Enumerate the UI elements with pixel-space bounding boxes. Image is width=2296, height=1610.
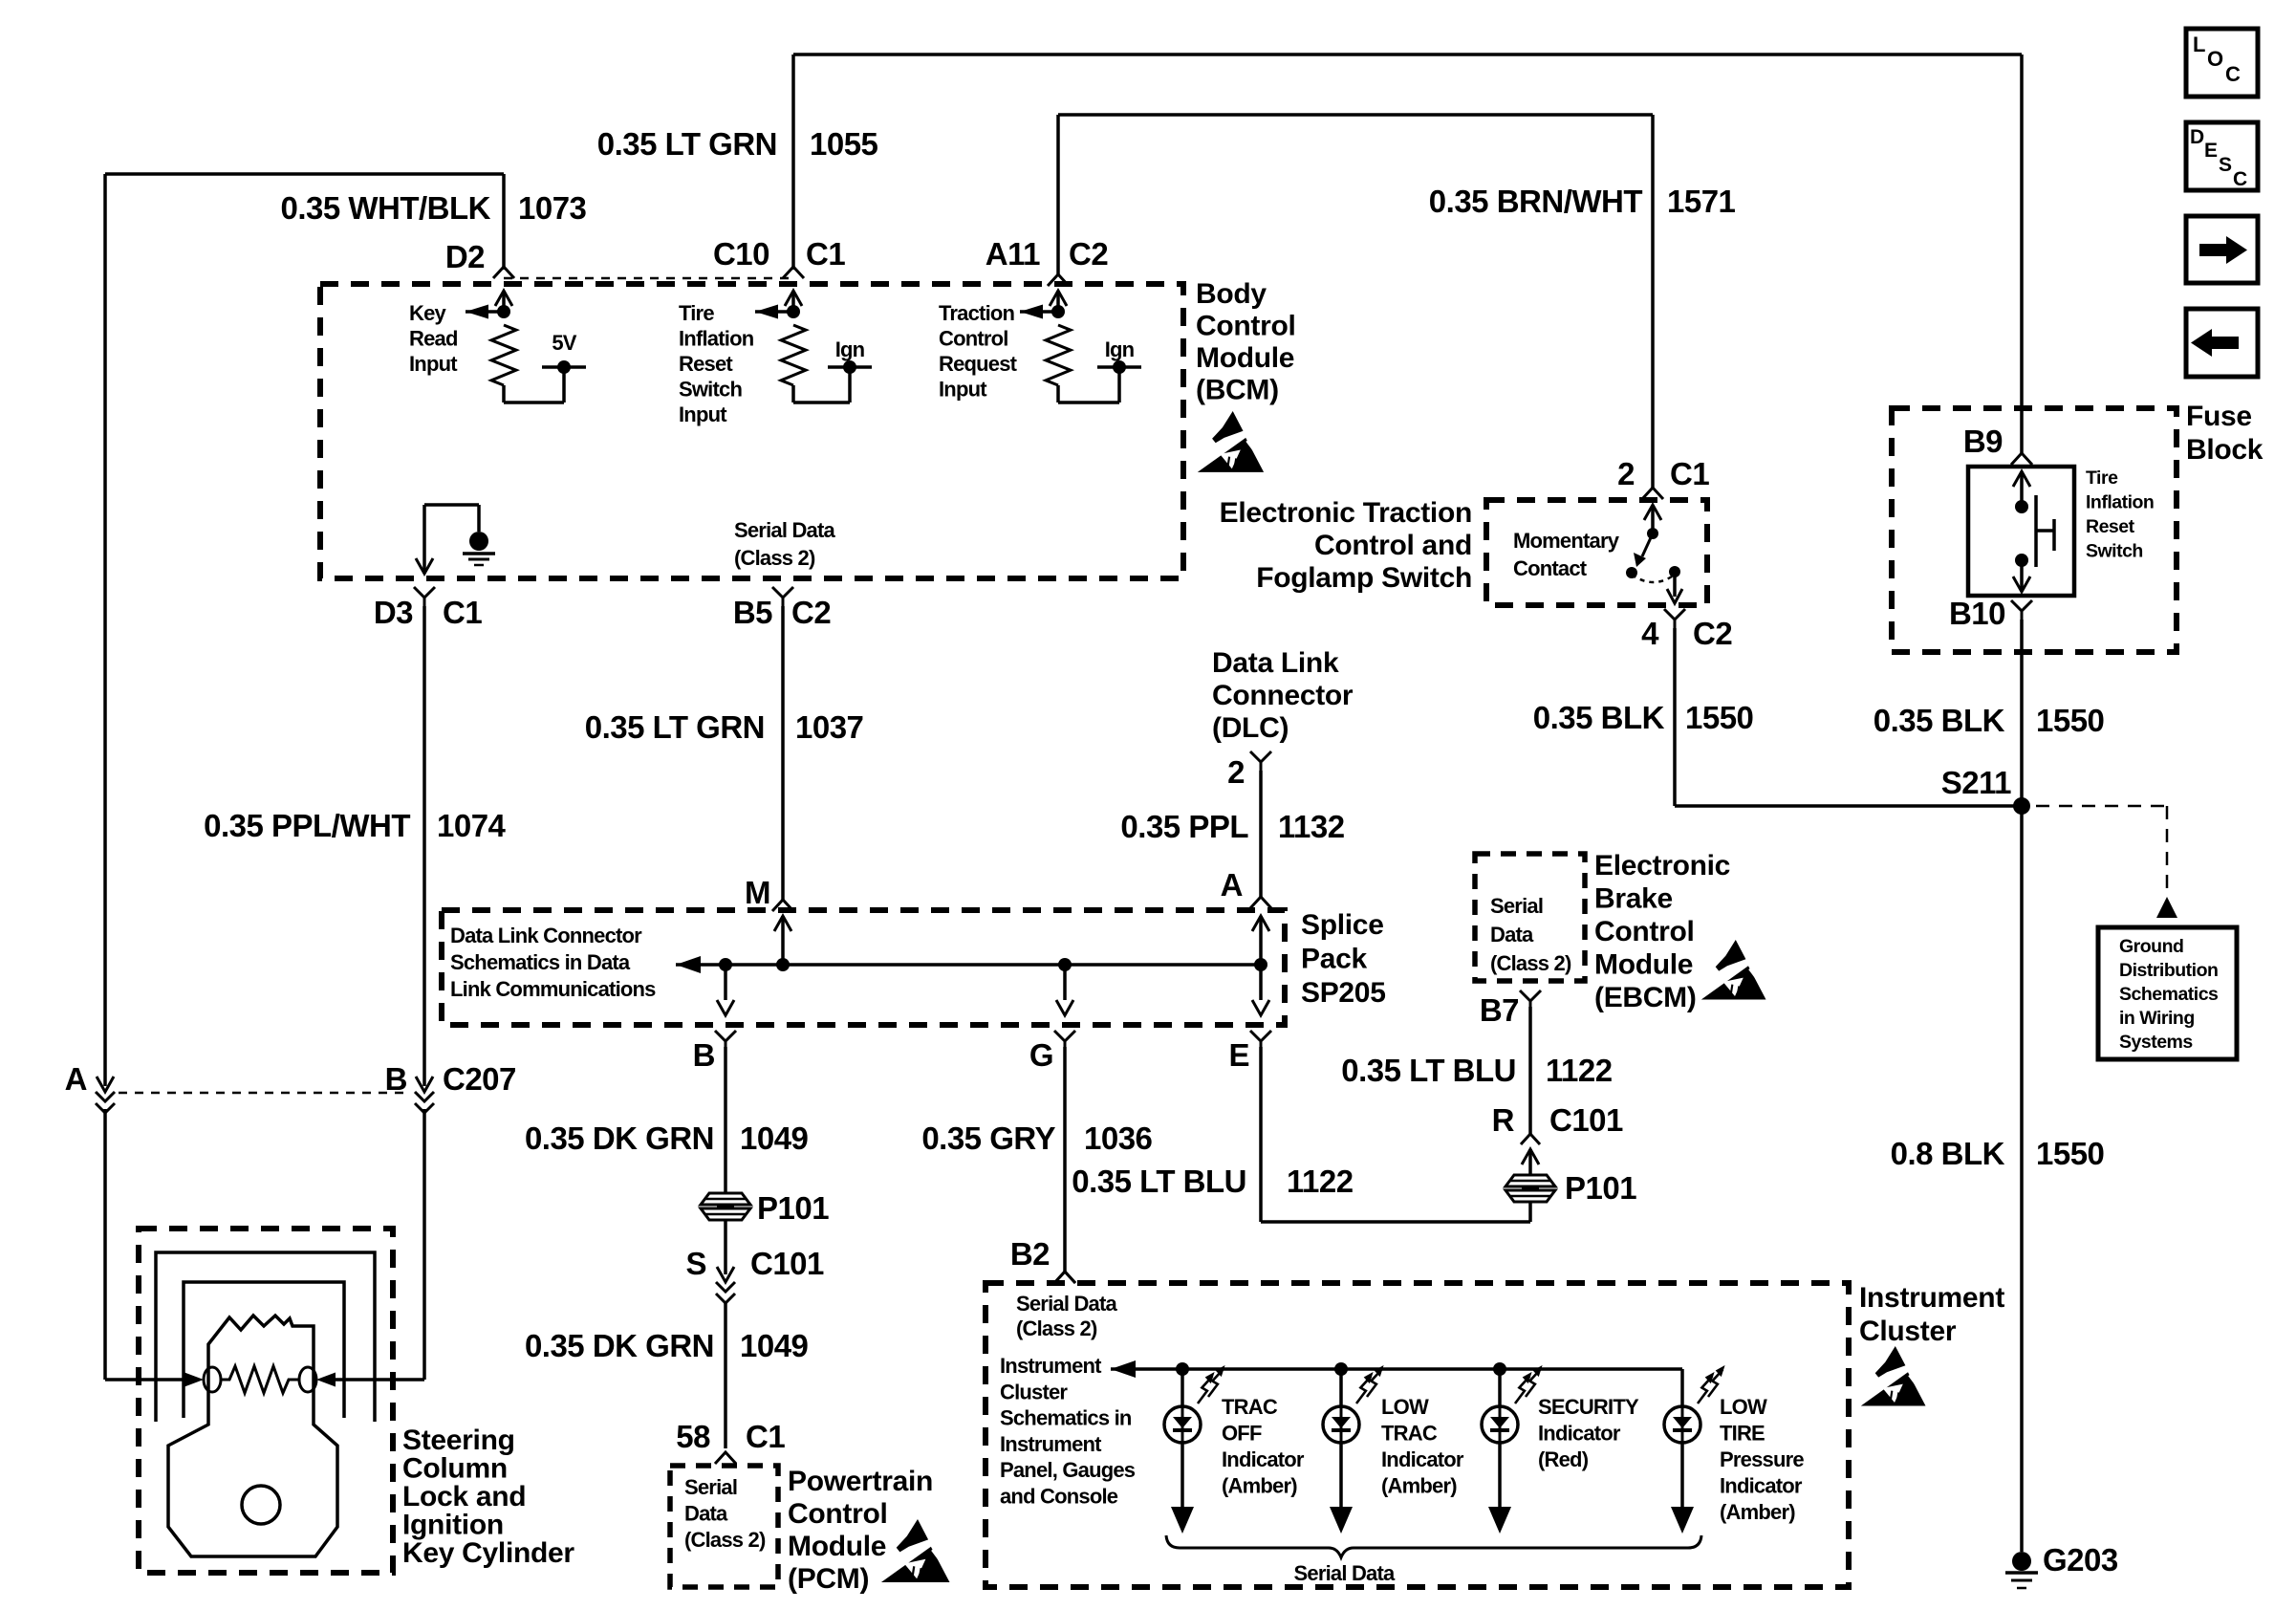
svg-text:1036: 1036 [1084, 1120, 1153, 1156]
svg-text:Electronic Traction: Electronic Traction [1220, 497, 1472, 529]
svg-text:Momentary: Momentary [1513, 529, 1620, 553]
svg-text:Serial Data: Serial Data [734, 518, 835, 542]
svg-text:(Amber): (Amber) [1720, 1500, 1795, 1524]
svg-text:Pack: Pack [1301, 944, 1367, 975]
svg-text:Data Link Connector: Data Link Connector [450, 924, 642, 947]
svg-text:1055: 1055 [810, 126, 878, 162]
svg-text:B9: B9 [1963, 424, 2003, 459]
svg-text:Instrument: Instrument [1000, 1432, 1102, 1456]
svg-text:0.35 BLK: 0.35 BLK [1874, 703, 2005, 738]
svg-text:Module: Module [1196, 342, 1294, 374]
svg-text:A: A [65, 1061, 87, 1097]
svg-text:(BCM): (BCM) [1196, 375, 1279, 406]
svg-text:Panel, Gauges: Panel, Gauges [1000, 1458, 1136, 1482]
svg-text:Foglamp Switch: Foglamp Switch [1256, 562, 1472, 594]
svg-text:Data Link: Data Link [1212, 647, 1339, 679]
svg-text:0.35 DK GRN: 0.35 DK GRN [525, 1328, 714, 1363]
svg-text:2: 2 [1227, 754, 1245, 790]
svg-text:Tire: Tire [2086, 468, 2118, 489]
svg-text:1132: 1132 [1278, 809, 1345, 844]
svg-text:D2: D2 [445, 239, 485, 274]
svg-text:B: B [693, 1037, 715, 1073]
svg-text:C: C [2225, 62, 2241, 86]
svg-text:1122: 1122 [1287, 1164, 1354, 1199]
svg-text:C2: C2 [791, 595, 831, 630]
svg-text:Module: Module [788, 1531, 886, 1562]
svg-text:1049: 1049 [740, 1328, 809, 1363]
svg-text:OFF: OFF [1222, 1422, 1262, 1446]
svg-text:Control: Control [1196, 311, 1296, 342]
svg-text:0.35 BLK: 0.35 BLK [1533, 700, 1665, 735]
svg-text:Cluster: Cluster [1000, 1380, 1068, 1403]
svg-text:Control: Control [788, 1498, 888, 1530]
svg-text:Instrument: Instrument [1000, 1354, 1102, 1378]
svg-text:Tire: Tire [679, 301, 714, 325]
svg-text:Switch: Switch [2086, 541, 2143, 562]
svg-text:G203: G203 [2043, 1542, 2118, 1577]
svg-text:Read: Read [409, 327, 458, 351]
svg-text:Indicator: Indicator [1222, 1447, 1305, 1471]
svg-text:and Console: and Console [1000, 1485, 1118, 1509]
svg-text:Electronic: Electronic [1594, 850, 1730, 881]
svg-text:O: O [2207, 47, 2223, 71]
svg-text:Key: Key [409, 301, 447, 325]
svg-text:1550: 1550 [2036, 1136, 2104, 1171]
svg-text:0.35 WHT/BLK: 0.35 WHT/BLK [280, 190, 490, 226]
svg-text:Input: Input [409, 352, 458, 376]
svg-text:1571: 1571 [1667, 184, 1736, 219]
svg-text:0.35 BRN/WHT: 0.35 BRN/WHT [1429, 184, 1643, 219]
svg-text:P101: P101 [1565, 1170, 1636, 1206]
svg-text:Body: Body [1196, 278, 1267, 310]
svg-text:Splice: Splice [1301, 909, 1384, 941]
svg-text:Fuse: Fuse [2186, 401, 2252, 432]
svg-text:M: M [745, 875, 770, 910]
svg-text:Powertrain: Powertrain [788, 1466, 933, 1497]
svg-text:Serial: Serial [1490, 894, 1543, 918]
svg-text:Control: Control [939, 327, 1008, 351]
svg-text:1049: 1049 [740, 1120, 809, 1156]
svg-text:(Class 2): (Class 2) [1490, 951, 1571, 975]
svg-text:Switch: Switch [679, 378, 742, 402]
svg-text:E: E [2204, 140, 2218, 162]
svg-text:Block: Block [2186, 434, 2264, 466]
svg-text:0.35 PPL/WHT: 0.35 PPL/WHT [204, 808, 410, 843]
svg-text:Serial Data: Serial Data [1016, 1292, 1117, 1316]
svg-text:Reset: Reset [2086, 516, 2135, 537]
svg-text:Ign: Ign [1105, 337, 1135, 361]
svg-text:(Class 2): (Class 2) [734, 546, 815, 570]
svg-text:0.8 BLK: 0.8 BLK [1891, 1136, 2005, 1171]
svg-text:B10: B10 [1949, 596, 2005, 631]
svg-text:C10: C10 [713, 236, 769, 272]
svg-text:C2: C2 [1069, 236, 1108, 272]
svg-text:(Red): (Red) [1538, 1447, 1589, 1471]
svg-text:Data: Data [1490, 923, 1534, 946]
svg-text:4: 4 [1641, 616, 1659, 651]
svg-text:LOW: LOW [1381, 1395, 1429, 1419]
svg-text:S: S [2219, 154, 2232, 176]
svg-text:0.35 LT BLU: 0.35 LT BLU [1341, 1053, 1516, 1088]
svg-text:SECURITY: SECURITY [1538, 1395, 1639, 1419]
svg-text:Control and: Control and [1314, 530, 1472, 561]
svg-text:0.35 LT BLU: 0.35 LT BLU [1072, 1164, 1246, 1199]
svg-text:(Amber): (Amber) [1381, 1474, 1457, 1498]
svg-text:Distribution: Distribution [2119, 960, 2218, 981]
svg-text:C: C [2233, 168, 2247, 190]
svg-text:Cluster: Cluster [1859, 1316, 1957, 1347]
svg-text:0.35 DK GRN: 0.35 DK GRN [525, 1120, 714, 1156]
svg-text:C1: C1 [746, 1419, 785, 1454]
svg-text:Lock and: Lock and [402, 1481, 526, 1512]
svg-text:B: B [385, 1061, 407, 1097]
svg-text:C1: C1 [806, 236, 845, 272]
svg-text:5V: 5V [552, 331, 576, 355]
svg-text:1550: 1550 [2036, 703, 2104, 738]
svg-text:58: 58 [676, 1419, 710, 1454]
svg-text:C101: C101 [750, 1246, 824, 1281]
svg-text:Request: Request [939, 352, 1018, 376]
svg-text:0.35 LT GRN: 0.35 LT GRN [585, 709, 765, 745]
svg-text:Schematics: Schematics [2119, 984, 2219, 1005]
svg-text:Data: Data [684, 1502, 728, 1526]
svg-text:Brake: Brake [1594, 883, 1673, 915]
svg-text:E: E [1228, 1037, 1249, 1073]
svg-text:B7: B7 [1480, 992, 1519, 1028]
svg-text:1074: 1074 [437, 808, 507, 843]
svg-text:C101: C101 [1549, 1102, 1623, 1138]
svg-text:0.35 LT GRN: 0.35 LT GRN [597, 126, 777, 162]
svg-text:Link Communications: Link Communications [450, 977, 656, 1001]
svg-text:D: D [2190, 126, 2204, 148]
svg-text:0.35 PPL: 0.35 PPL [1120, 809, 1248, 844]
svg-text:Instrument: Instrument [1859, 1282, 2004, 1314]
svg-text:Traction: Traction [939, 301, 1015, 325]
svg-text:TRAC: TRAC [1222, 1395, 1278, 1419]
svg-text:Schematics in Data: Schematics in Data [450, 950, 631, 974]
svg-text:(PCM): (PCM) [788, 1563, 869, 1595]
svg-text:Inflation: Inflation [679, 327, 754, 351]
svg-text:Steering: Steering [402, 1425, 515, 1456]
svg-text:0.35 GRY: 0.35 GRY [921, 1120, 1055, 1156]
svg-text:Ign: Ign [835, 337, 865, 361]
svg-text:(Class 2): (Class 2) [1016, 1316, 1097, 1340]
svg-text:in Wiring: in Wiring [2119, 1008, 2195, 1029]
svg-text:Schematics in: Schematics in [1000, 1406, 1132, 1430]
svg-text:D3: D3 [374, 595, 413, 630]
svg-text:B2: B2 [1010, 1236, 1050, 1272]
svg-text:S211: S211 [1941, 765, 2011, 800]
svg-text:2: 2 [1617, 456, 1635, 491]
svg-text:1122: 1122 [1546, 1053, 1613, 1088]
svg-text:Connector: Connector [1212, 680, 1354, 711]
svg-text:A11: A11 [986, 236, 1040, 272]
svg-text:(EBCM): (EBCM) [1594, 982, 1697, 1013]
svg-text:R: R [1492, 1102, 1515, 1138]
svg-text:(Class 2): (Class 2) [684, 1528, 766, 1552]
svg-text:TRAC: TRAC [1381, 1422, 1438, 1446]
svg-text:C1: C1 [443, 595, 482, 630]
svg-text:C1: C1 [1670, 456, 1709, 491]
svg-text:Key Cylinder: Key Cylinder [402, 1537, 574, 1569]
svg-text:A: A [1221, 867, 1243, 903]
svg-text:1550: 1550 [1685, 700, 1753, 735]
svg-text:Ground: Ground [2119, 936, 2183, 957]
svg-text:LOW: LOW [1720, 1395, 1767, 1419]
svg-text:Control: Control [1594, 916, 1695, 947]
svg-text:P101: P101 [757, 1190, 829, 1226]
svg-text:S: S [685, 1246, 706, 1281]
svg-text:B5: B5 [733, 595, 772, 630]
svg-text:Pressure: Pressure [1720, 1447, 1804, 1471]
svg-text:Module: Module [1594, 949, 1693, 981]
svg-text:SP205: SP205 [1301, 977, 1386, 1009]
svg-text:Serial: Serial [684, 1475, 737, 1499]
svg-text:G: G [1029, 1037, 1053, 1073]
svg-text:1073: 1073 [518, 190, 587, 226]
svg-text:Input: Input [679, 402, 727, 426]
svg-text:Contact: Contact [1513, 556, 1588, 580]
svg-text:(Amber): (Amber) [1222, 1474, 1297, 1498]
svg-text:Inflation: Inflation [2086, 492, 2154, 513]
svg-text:(DLC): (DLC) [1212, 712, 1289, 744]
svg-text:1037: 1037 [795, 709, 863, 745]
svg-text:Serial Data: Serial Data [1294, 1561, 1396, 1585]
svg-text:Systems: Systems [2119, 1032, 2193, 1053]
svg-text:Indicator: Indicator [1720, 1474, 1803, 1498]
svg-text:L: L [2193, 33, 2205, 56]
svg-text:C2: C2 [1693, 616, 1732, 651]
svg-text:C207: C207 [443, 1061, 516, 1097]
svg-text:Input: Input [939, 378, 987, 402]
svg-text:Indicator: Indicator [1381, 1447, 1464, 1471]
svg-text:Reset: Reset [679, 352, 733, 376]
svg-text:Column: Column [402, 1453, 508, 1485]
svg-text:Ignition: Ignition [402, 1510, 504, 1541]
svg-text:Indicator: Indicator [1538, 1422, 1621, 1446]
svg-text:TIRE: TIRE [1720, 1422, 1765, 1446]
